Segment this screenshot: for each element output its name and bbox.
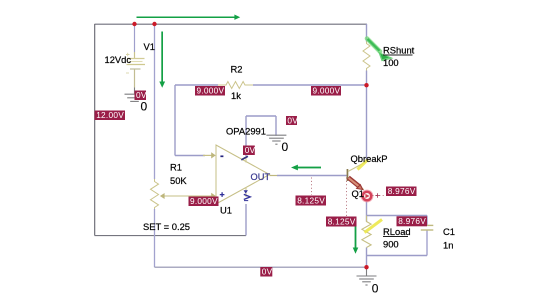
wire bottom rail net 0 xyxy=(155,266,367,268)
bias label 9.000V left of R2 xyxy=(195,86,225,96)
op-amp V+ supply stub xyxy=(245,157,247,163)
Q1 base bar xyxy=(347,169,349,181)
bias label 9.000V right of R2 xyxy=(311,86,341,96)
wire Q1 emitter down xyxy=(366,201,368,216)
svg-text:0: 0 xyxy=(282,140,289,154)
svg-text:0V: 0V xyxy=(262,267,273,277)
svg-text:OUT: OUT xyxy=(251,172,271,182)
svg-text:8.976V: 8.976V xyxy=(398,216,426,226)
transistor Q1 QbreakP xyxy=(347,160,373,202)
capacitor C1 1n xyxy=(421,225,434,230)
dotted leader to 8.125V label 1 xyxy=(311,178,313,196)
bias label 0V op-amp V+ xyxy=(243,145,256,155)
op-amp inverting input arrowhead xyxy=(203,154,212,156)
bias label 9.000V at plus input xyxy=(189,196,219,206)
red current probe circle xyxy=(361,190,372,201)
wire battery top column xyxy=(134,24,136,52)
voltage source V1 12Vdc battery xyxy=(126,52,145,88)
yellow highlight on collector xyxy=(358,160,369,170)
svg-text:U1: U1 xyxy=(220,205,232,216)
op-amp plus marker xyxy=(220,192,225,197)
svg-text:12.00V: 12.00V xyxy=(96,110,124,120)
bias label 0V bottom rail xyxy=(260,267,272,277)
resistor R2 1k horizontal xyxy=(218,82,253,89)
resistor RLoad 900 vertical xyxy=(362,216,371,248)
Q1 collector diagonal xyxy=(348,162,367,172)
wire RShunt bottom to junction xyxy=(366,71,368,86)
svg-text:0V: 0V xyxy=(245,145,256,155)
bias label 8.125V lower xyxy=(326,216,357,226)
green current arrow through RLoad xyxy=(353,226,359,254)
wire C1 top lead xyxy=(426,216,428,226)
bias label 0V op-amp ground xyxy=(286,115,298,125)
svg-text:1n: 1n xyxy=(443,240,453,251)
wire C1 bottom branch xyxy=(367,255,428,257)
svg-text:8.125V: 8.125V xyxy=(297,195,325,205)
op-amp output stub xyxy=(270,175,278,177)
wire R1 top column xyxy=(154,24,156,179)
op-amp V- pin marker xyxy=(244,190,248,193)
op-amp V+ pin marker xyxy=(241,156,248,160)
ground 0 bottom rail xyxy=(357,267,377,285)
green current arrow V1 down xyxy=(159,32,165,88)
wire junction down to Q1 collector xyxy=(366,85,368,162)
svg-text:V1: V1 xyxy=(144,41,155,52)
Q1 emitter diagonal xyxy=(348,180,364,190)
green current arrow through RShunt xyxy=(367,39,394,62)
svg-text:1k: 1k xyxy=(231,90,241,101)
potentiometer R1 50K vertical xyxy=(151,179,159,209)
svg-text:9.000V: 9.000V xyxy=(313,86,341,96)
svg-text:QbreakP: QbreakP xyxy=(351,153,388,164)
op-amp minus marker xyxy=(220,155,223,157)
wire branch to C1 top xyxy=(367,215,428,217)
wiper wire arrowhead into op-amp plus pin xyxy=(211,193,216,199)
yellow highlight on RLoad xyxy=(365,220,383,233)
wire R2 right to shunt junction xyxy=(253,84,367,86)
resistor RShunt 100 vertical xyxy=(363,42,370,71)
wire op-amp V- pin column xyxy=(245,204,247,236)
wire top rail net 12V xyxy=(95,23,367,25)
junction dot top R1 xyxy=(152,22,156,26)
op-amp U1 OPA2991 triangle xyxy=(216,145,270,204)
wire bottom-left to op-amp V- pin xyxy=(95,235,247,237)
bias label 8.976V at RLoad xyxy=(397,216,428,226)
svg-text:0V: 0V xyxy=(287,115,298,125)
svg-text:RShunt: RShunt xyxy=(383,45,415,56)
bias label 12.00V xyxy=(95,110,126,120)
svg-text:100: 100 xyxy=(383,57,399,68)
wire right column upper xyxy=(366,24,368,42)
wire RLoad bottom to rail xyxy=(366,248,368,268)
svg-text:C1: C1 xyxy=(443,226,455,237)
junction dot bottom rail ground xyxy=(364,265,368,269)
bias label 8.125V near output xyxy=(296,195,327,205)
svg-text:8.976V: 8.976V xyxy=(388,186,416,196)
svg-text:Q1: Q1 xyxy=(352,188,365,199)
svg-text:8.125V: 8.125V xyxy=(328,216,356,226)
op-amp V- supply stub xyxy=(245,187,247,197)
svg-text:SET = 0.25: SET = 0.25 xyxy=(143,221,190,232)
wire feedback left vertical xyxy=(174,85,176,156)
svg-text:0: 0 xyxy=(141,100,148,114)
svg-text:12Vdc: 12Vdc xyxy=(105,54,132,65)
wire left rail xyxy=(94,24,96,236)
svg-text:900: 900 xyxy=(383,239,399,250)
dotted leader to 8.976V label with cross xyxy=(373,195,386,197)
svg-text:9.000V: 9.000V xyxy=(197,86,225,96)
junction dot top battery xyxy=(132,22,136,26)
R1 wiper arrow xyxy=(164,195,212,197)
wire feedback to inverting input xyxy=(175,155,205,157)
wire C1 bottom lead xyxy=(426,230,428,255)
green current arrow into op-amp output (left) xyxy=(291,165,321,171)
ground 0 below V1 xyxy=(125,88,145,102)
wire op-amp V+ net to ground xyxy=(246,116,276,156)
svg-text:9.000V: 9.000V xyxy=(190,196,218,206)
ground 0 at op-amp V+ pin xyxy=(266,135,286,144)
svg-text:R1: R1 xyxy=(170,162,182,173)
bias label 8.976V at Q1 emitter xyxy=(386,186,417,196)
svg-text:OPA2991: OPA2991 xyxy=(226,126,266,137)
svg-text:50K: 50K xyxy=(170,175,187,186)
wire R1 bottom column xyxy=(154,209,156,267)
wire R2 left xyxy=(175,84,218,86)
wire op-amp output xyxy=(277,175,347,177)
bias label 0V battery ground xyxy=(135,90,147,100)
dotted leader to 8.125V label 2 xyxy=(346,178,348,217)
svg-text:RLoad: RLoad xyxy=(383,226,411,237)
maroon current marker arrow on emitter xyxy=(348,178,359,187)
svg-text:R2: R2 xyxy=(231,64,243,75)
wire RLoad top xyxy=(366,216,368,222)
junction dot R2/RShunt node xyxy=(364,83,368,87)
green current arrow top rail xyxy=(137,15,241,20)
svg-text:0: 0 xyxy=(372,282,379,296)
